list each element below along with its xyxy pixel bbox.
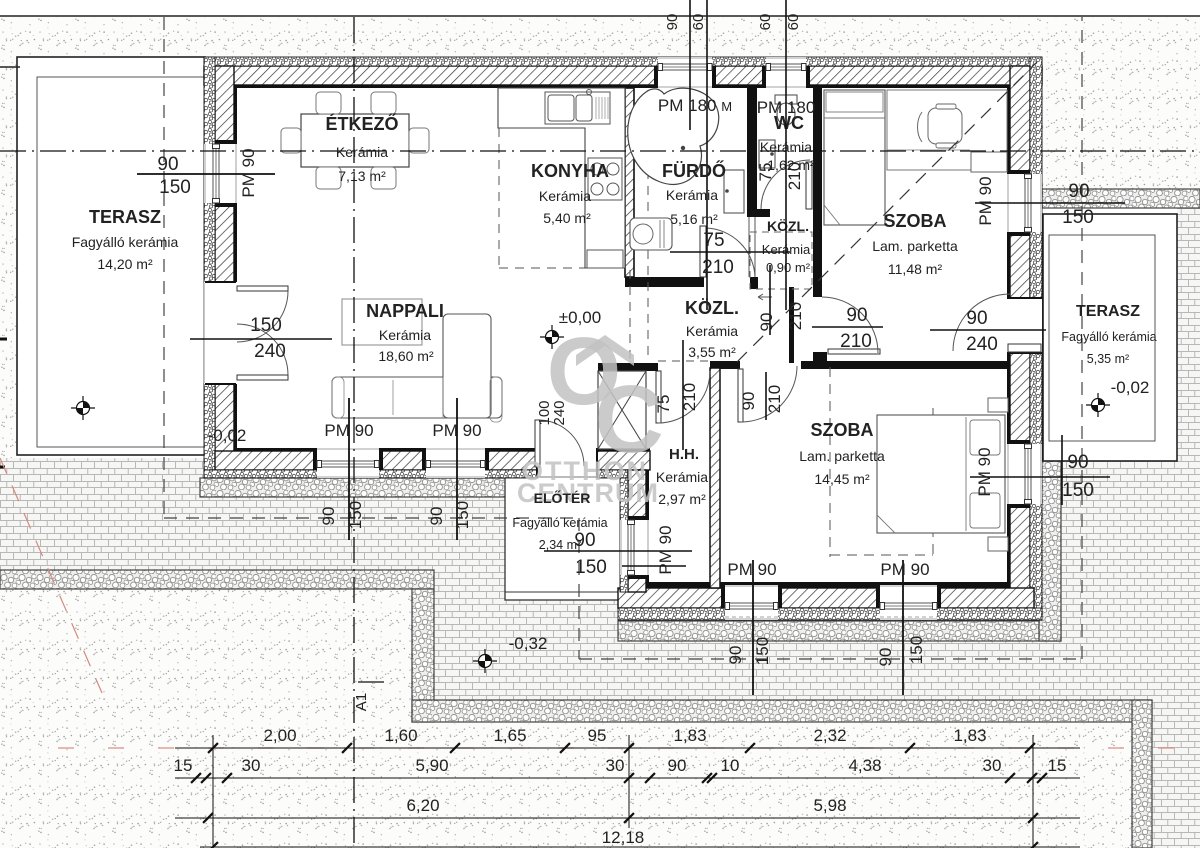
svg-text:7,13 m²: 7,13 m² bbox=[338, 168, 386, 184]
dimension chain C bbox=[175, 817, 1080, 819]
svg-text:Lam. parketta: Lam. parketta bbox=[872, 238, 958, 254]
red dashed boundary horizontal bbox=[58, 747, 1200, 749]
paving: brick right of terrace bbox=[1177, 208, 1200, 461]
right terrace TERASZ slab bbox=[1043, 214, 1177, 461]
wardrobe with X bbox=[598, 371, 646, 449]
door: szoba south 90/210 bbox=[738, 369, 743, 422]
svg-text:A1: A1 bbox=[353, 693, 370, 711]
svg-text:90: 90 bbox=[319, 507, 338, 526]
dim: hh door 75/210 bbox=[682, 340, 684, 450]
svg-text:240: 240 bbox=[254, 341, 286, 362]
svg-text:14,20 m²: 14,20 m² bbox=[97, 256, 153, 272]
sofa bbox=[332, 377, 502, 418]
svg-text:90: 90 bbox=[876, 648, 895, 667]
bed szoba top bbox=[824, 90, 885, 225]
dining chairs bbox=[316, 92, 341, 114]
exterior wall: porch east hatch bbox=[628, 470, 646, 592]
svg-text:Kerámia: Kerámia bbox=[666, 187, 718, 203]
interior wall: W8 H.H. east bbox=[710, 368, 720, 588]
gravel strip above right terrace bbox=[1042, 189, 1200, 208]
dashed wardrobe zone szoba bbox=[829, 367, 831, 557]
svg-text:90: 90 bbox=[427, 507, 446, 526]
svg-text:2,00: 2,00 bbox=[263, 726, 296, 745]
svg-text:150: 150 bbox=[159, 177, 191, 198]
svg-text:90: 90 bbox=[846, 305, 867, 326]
dim: szoba south windows bbox=[752, 560, 754, 695]
window PM 90 nappali south 1 bbox=[317, 448, 379, 478]
door: H.H. 75/210 bbox=[656, 371, 661, 423]
svg-text:90: 90 bbox=[1067, 452, 1088, 473]
gravel strip south-east leg bbox=[1132, 700, 1152, 848]
svg-text:90: 90 bbox=[739, 392, 758, 411]
svg-text:Kerámia: Kerámia bbox=[686, 323, 738, 339]
dim: terrace door 90/240 bbox=[930, 329, 1046, 331]
svg-text:150: 150 bbox=[575, 557, 607, 578]
svg-text:75: 75 bbox=[756, 163, 775, 182]
extension lines bbox=[212, 735, 214, 848]
svg-text:18,60 m²: 18,60 m² bbox=[378, 348, 434, 364]
exterior wall: east insulation bbox=[1030, 57, 1042, 620]
section line through bath bbox=[706, 0, 708, 310]
svg-text:Kerámia: Kerámia bbox=[336, 144, 388, 160]
svg-text:95: 95 bbox=[588, 726, 607, 745]
svg-text:SZOBA: SZOBA bbox=[884, 211, 947, 231]
dimension chain B bbox=[175, 777, 1080, 779]
paving: brick walkway left bbox=[0, 458, 412, 570]
interior wall: WC sill + door bbox=[747, 209, 770, 217]
svg-text:90: 90 bbox=[574, 530, 595, 551]
interior wall: W1 bathroom west bbox=[625, 88, 634, 277]
window PM 90 szoba east low bbox=[1007, 444, 1042, 504]
exterior wall: east inner face bbox=[1007, 85, 1010, 588]
dim: porch door 90/150 bbox=[544, 550, 692, 552]
interior wall: W3 szoba west bbox=[813, 88, 822, 297]
svg-text:90: 90 bbox=[668, 756, 687, 775]
exterior wall: south-west inner face bbox=[234, 448, 537, 451]
svg-text:5,16 m²: 5,16 m² bbox=[670, 211, 718, 227]
window PM 90 szoba east bbox=[1007, 174, 1042, 232]
svg-text:90: 90 bbox=[664, 14, 681, 31]
exterior wall: porch east insulation bbox=[620, 478, 628, 592]
svg-text:150: 150 bbox=[907, 636, 926, 664]
svg-text:Kerámia: Kerámia bbox=[379, 327, 431, 343]
svg-text:1,65: 1,65 bbox=[493, 726, 526, 745]
door: east terrace door 90/240 bbox=[1007, 298, 1042, 353]
svg-text:-0,02: -0,02 bbox=[1111, 378, 1150, 397]
svg-text:PM 90: PM 90 bbox=[656, 525, 675, 574]
exterior wall: west insulation bbox=[204, 57, 215, 478]
svg-text:Fagyálló kerámia: Fagyálló kerámia bbox=[72, 234, 179, 250]
gravel strip under south wall left bbox=[200, 478, 533, 497]
exterior wall: south-east inner face bbox=[642, 582, 1007, 588]
right terrace inner line bbox=[1049, 235, 1155, 441]
svg-text:Fagyálló kerámia: Fagyálló kerámia bbox=[512, 516, 607, 530]
exterior wall: north inner face bbox=[234, 85, 1010, 88]
svg-text:150: 150 bbox=[1062, 480, 1094, 501]
exterior wall: west inner face bbox=[234, 85, 237, 451]
svg-text:SZOBA: SZOBA bbox=[811, 420, 874, 440]
svg-text:KÖZL.: KÖZL. bbox=[685, 298, 739, 318]
door: bathroom 75/210 bbox=[700, 226, 706, 277]
svg-text:6,20: 6,20 bbox=[406, 796, 439, 815]
gravel strip south outer edge bbox=[412, 700, 1152, 722]
svg-text:240: 240 bbox=[966, 334, 998, 355]
svg-text:210: 210 bbox=[680, 383, 699, 411]
svg-text:4,38: 4,38 bbox=[848, 756, 881, 775]
left terrace inner line bbox=[37, 77, 205, 447]
interior wall: W4 jamb bbox=[750, 277, 758, 289]
dim: bath door 75/210 bbox=[670, 251, 790, 253]
svg-text:30: 30 bbox=[606, 756, 625, 775]
exterior wall: south-east hatch bbox=[618, 588, 1034, 608]
dim: nappali windows bbox=[348, 398, 350, 540]
svg-text:150: 150 bbox=[1062, 207, 1094, 228]
svg-text:60: 60 bbox=[690, 14, 707, 31]
window PM 90 nappali south 2 bbox=[426, 448, 485, 478]
svg-text:90: 90 bbox=[966, 308, 987, 329]
kitchen counter bbox=[498, 88, 625, 268]
ground: top stipple band bbox=[0, 17, 1200, 57]
svg-text:240: 240 bbox=[551, 400, 568, 425]
svg-text:210: 210 bbox=[840, 331, 872, 352]
svg-text:90: 90 bbox=[157, 154, 178, 175]
svg-text:PM 90: PM 90 bbox=[432, 421, 481, 440]
bathtub bbox=[628, 88, 719, 184]
house interior fill bbox=[204, 57, 1042, 620]
attic hatch dashed box bbox=[750, 232, 812, 289]
paving: brick walkway entry path bbox=[412, 497, 505, 700]
svg-text:150: 150 bbox=[753, 637, 772, 665]
top fascia line bbox=[0, 15, 1200, 17]
svg-text:150: 150 bbox=[346, 501, 365, 529]
dimension chain A bbox=[175, 747, 1080, 749]
section line A1 vertical bbox=[353, 17, 355, 848]
svg-text:30: 30 bbox=[242, 756, 261, 775]
cabinet szoba top bbox=[971, 152, 1007, 172]
fridge bbox=[587, 250, 623, 268]
svg-text:TERASZ: TERASZ bbox=[1076, 303, 1140, 320]
svg-text:30: 30 bbox=[983, 756, 1002, 775]
window PM 180 M furdo north bbox=[658, 57, 712, 88]
svg-text:-0,02: -0,02 bbox=[208, 426, 247, 445]
interior wall: W6 kozl east bbox=[789, 287, 794, 363]
svg-text:Kerámia: Kerámia bbox=[539, 188, 591, 204]
svg-text:3,55 m²: 3,55 m² bbox=[688, 344, 736, 360]
svg-text:PM 90: PM 90 bbox=[976, 176, 995, 225]
dim: west door 150/240 bbox=[190, 338, 332, 340]
svg-text:1,83: 1,83 bbox=[953, 726, 986, 745]
svg-text:5,40 m²: 5,40 m² bbox=[543, 210, 591, 226]
door: WC 75/210 bbox=[806, 162, 812, 209]
svg-text:PM 90: PM 90 bbox=[975, 447, 994, 496]
svg-text:210: 210 bbox=[765, 385, 784, 413]
desk szoba top bbox=[887, 90, 1007, 170]
paving: brick bottom-right corner bbox=[1152, 700, 1200, 848]
svg-text:5,98: 5,98 bbox=[813, 796, 846, 815]
svg-text:90: 90 bbox=[726, 646, 745, 665]
bathroom vanity bbox=[724, 170, 744, 213]
interior wall: W2 bathroom/WC bbox=[747, 88, 757, 210]
red dashed boundary diagonal bbox=[0, 458, 102, 693]
svg-text:PM 180 M: PM 180 M bbox=[658, 96, 732, 115]
cooktop bbox=[588, 158, 622, 200]
gravel strip entry path left edge bbox=[412, 589, 434, 722]
svg-text:PM 180: PM 180 bbox=[757, 98, 816, 117]
eaves outline dashed bbox=[163, 17, 165, 518]
svg-text:ÉTKEZŐ: ÉTKEZŐ bbox=[325, 113, 398, 134]
exterior wall: south-west hatch bbox=[215, 451, 537, 470]
exterior wall: south-east insulation bbox=[618, 608, 1042, 620]
svg-text:150: 150 bbox=[250, 315, 282, 336]
svg-text:-0,32: -0,32 bbox=[509, 634, 548, 653]
svg-text:90: 90 bbox=[757, 313, 776, 332]
exterior wall: east hatch bbox=[1010, 66, 1030, 608]
dashed line kitchen/bath bbox=[647, 90, 649, 361]
interior wall: W4 bathroom south bbox=[625, 277, 704, 287]
svg-text:2,32: 2,32 bbox=[813, 726, 846, 745]
paving: brick under porch bbox=[505, 600, 625, 700]
exterior wall: north insulation bbox=[204, 57, 1042, 66]
interior wall: W9 nappali/hh bar bbox=[598, 363, 658, 371]
svg-text:FÜRDŐ: FÜRDŐ bbox=[662, 160, 726, 181]
svg-text:Fagyálló kerámia: Fagyálló kerámia bbox=[1061, 330, 1156, 344]
roof diagonal dashed bbox=[737, 62, 1037, 362]
dim: kozl opening 90/210 bbox=[769, 265, 771, 335]
svg-text:PM 90: PM 90 bbox=[324, 421, 373, 440]
svg-text:1,83: 1,83 bbox=[673, 726, 706, 745]
svg-text:2,97 m²: 2,97 m² bbox=[658, 491, 706, 507]
left terrace TERASZ slab bbox=[17, 57, 205, 455]
ground: right stipple field bbox=[1042, 17, 1200, 189]
svg-text:75: 75 bbox=[654, 395, 673, 414]
interior wall: W3 jamb stub bbox=[813, 352, 827, 363]
svg-text:60: 60 bbox=[785, 14, 802, 31]
cased opening below WC bbox=[748, 217, 750, 277]
svg-text:PM 90: PM 90 bbox=[239, 148, 258, 197]
office chair bbox=[928, 108, 962, 144]
ground: left stipple strip bbox=[0, 57, 17, 458]
window PM 90 H.H. entry bbox=[620, 520, 649, 575]
gravel strip walkway lower edge left bbox=[0, 570, 434, 589]
exterior wall: west hatch bbox=[215, 66, 234, 470]
dining table bbox=[301, 114, 409, 167]
level marker nappali bbox=[540, 336, 564, 338]
svg-text:10: 10 bbox=[721, 756, 740, 775]
gravel strip east edge below terrace bbox=[1039, 461, 1061, 641]
svg-text:KONYHA: KONYHA bbox=[531, 161, 609, 181]
svg-text:Lam. parketta: Lam. parketta bbox=[799, 448, 885, 464]
svg-text:TERASZ: TERASZ bbox=[89, 207, 161, 227]
dim: east window low 90/150 bbox=[970, 476, 1110, 478]
svg-text:5,35 m²: 5,35 m² bbox=[1087, 352, 1129, 366]
exterior wall: porch head block bbox=[597, 451, 650, 470]
door: west terrace double door 150/240 bbox=[204, 282, 237, 384]
svg-text:210: 210 bbox=[785, 162, 804, 190]
paving: brick right field bbox=[1061, 461, 1200, 641]
kozl boundary dashed bbox=[658, 360, 710, 362]
porch ELOTER slab bbox=[505, 470, 625, 600]
door: szoba north 90/210 bbox=[828, 349, 880, 354]
interior wall: W7 kozl/szoba bbox=[710, 361, 740, 369]
svg-text:90: 90 bbox=[1068, 181, 1089, 202]
dim: east window high 90/150 bbox=[975, 202, 1125, 204]
washing machine bbox=[630, 218, 672, 250]
svg-text:60: 60 bbox=[757, 14, 774, 31]
svg-text:210: 210 bbox=[702, 257, 734, 278]
A1 section label bbox=[358, 681, 384, 683]
paving: brick south strip bbox=[618, 641, 1200, 700]
svg-text:210: 210 bbox=[786, 302, 805, 330]
window PM 90 terasz west bbox=[204, 144, 237, 203]
dim: szoba north door 90/210 bbox=[812, 326, 883, 328]
level marker walkway bbox=[473, 660, 497, 662]
window PM 180 wc north bbox=[766, 57, 806, 88]
svg-text:PM 90: PM 90 bbox=[880, 560, 929, 579]
svg-text:15: 15 bbox=[1048, 756, 1067, 775]
exterior wall: porch east inner face bbox=[646, 470, 649, 588]
svg-text:±0,00: ±0,00 bbox=[559, 308, 601, 327]
svg-text:H.H.: H.H. bbox=[669, 446, 699, 463]
kitchen sink bbox=[545, 92, 610, 124]
nappali sideboard bbox=[342, 299, 422, 345]
left edge ticks bbox=[0, 338, 7, 341]
svg-text:NAPPALI: NAPPALI bbox=[366, 301, 444, 321]
svg-text:PM 90: PM 90 bbox=[727, 560, 776, 579]
svg-text:KÖZL.: KÖZL. bbox=[767, 218, 809, 234]
window PM 90 szoba south 1 bbox=[725, 585, 778, 620]
svg-text:1,60: 1,60 bbox=[384, 726, 417, 745]
WC toilet bbox=[775, 95, 797, 104]
dashed kitchen cabinets bbox=[498, 128, 500, 268]
svg-text:0,90 m²: 0,90 m² bbox=[766, 260, 811, 275]
level marker terasz left bbox=[71, 407, 95, 409]
gravel strip under south wall right bbox=[618, 621, 1061, 641]
nightstands bbox=[988, 398, 1008, 412]
level marker terasz right bbox=[1086, 404, 1110, 406]
dimension chain D bbox=[200, 846, 1080, 848]
svg-text:150: 150 bbox=[453, 501, 472, 529]
ground: bottom-left stipple field bbox=[0, 589, 434, 848]
svg-text:75: 75 bbox=[703, 230, 724, 251]
svg-text:Kerámia: Kerámia bbox=[656, 469, 708, 485]
bed szoba bottom bbox=[877, 415, 1005, 533]
door: front entry 100/240 porch bbox=[537, 448, 597, 478]
window PM 90 szoba south 2 bbox=[880, 585, 937, 620]
WC basin bbox=[759, 140, 775, 168]
entry arrow bbox=[758, 294, 772, 300]
ground: bottom stipple field bbox=[434, 722, 1132, 848]
section line horizontal bbox=[0, 150, 1200, 152]
dim: west window 90/150 bbox=[137, 173, 275, 175]
svg-text:5,90: 5,90 bbox=[415, 756, 448, 775]
exterior wall: north hatch bbox=[204, 66, 1042, 85]
porch step line bbox=[505, 591, 625, 593]
svg-text:11,48 m²: 11,48 m² bbox=[888, 261, 943, 277]
svg-text:ELŐTÉR: ELŐTÉR bbox=[534, 489, 591, 506]
svg-text:14,45 m²: 14,45 m² bbox=[814, 471, 870, 487]
svg-text:15: 15 bbox=[174, 756, 193, 775]
exterior wall: south-west insulation bbox=[204, 470, 537, 478]
svg-text:12,18: 12,18 bbox=[602, 828, 645, 847]
